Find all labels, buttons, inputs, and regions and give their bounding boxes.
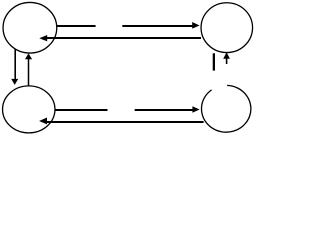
wire: bottom transition right-to-left <box>47 121 204 123</box>
state circle bottom-right (arc with gap at top) <box>201 85 250 132</box>
wire: bottom transition left-to-right, segment 1 <box>55 109 107 111</box>
wire: left transition downward (top-left to bottom-left) <box>14 49 16 79</box>
wire: top transition right-to-left <box>47 37 201 39</box>
arrowhead: top transition pointing left into top-left circle <box>39 35 47 41</box>
arrowhead: bottom transition pointing left into bottom-left circle <box>39 118 47 125</box>
wire: clipped vertical line below top-right circle <box>213 53 215 70</box>
wire: clipped upward transition shaft below top-right circle <box>226 59 228 65</box>
wire: bottom transition left-to-right, segment 2 <box>135 109 193 111</box>
arrowhead: clipped upward transition pointing up into top-right circle <box>223 52 230 59</box>
state circle bottom-left <box>3 86 55 133</box>
arrowhead: bottom transition pointing right into bottom-right circle <box>192 106 199 113</box>
state circle top-right <box>201 3 253 53</box>
arrowhead: left transition pointing down into bottom-left circle <box>11 79 18 85</box>
wire: top transition left-to-right, segment 1 <box>57 25 96 27</box>
state circle top-left <box>3 2 57 53</box>
arrowhead: left transition pointing up into top-left circle <box>25 53 32 59</box>
wire: left transition upward (bottom-left to top-left) <box>28 59 30 86</box>
wire: top transition left-to-right, segment 2 <box>122 25 192 27</box>
arrowhead: top transition pointing right into top-right circle <box>192 22 199 29</box>
